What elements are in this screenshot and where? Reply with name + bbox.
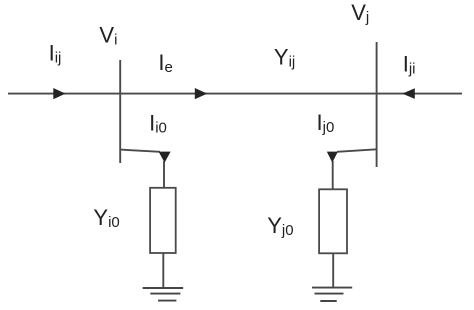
- wire: shunt tap at bus i: [120, 150, 160, 152]
- admittance Yi0 box: [150, 188, 176, 253]
- ground i: [143, 288, 184, 301]
- bus node Vj: [376, 42, 378, 167]
- svg-text:Ij0: Ij0: [317, 110, 335, 136]
- bus node Vi: [119, 60, 121, 163]
- ground j: [312, 288, 352, 301]
- arrowhead: current Iji direction: [402, 88, 415, 99]
- svg-text:Iji: Iji: [403, 52, 416, 78]
- svg-text:Yj0: Yj0: [267, 213, 293, 239]
- svg-text:Yi0: Yi0: [93, 205, 119, 231]
- svg-text:Vj: Vj: [351, 0, 369, 26]
- svg-text:Ii0: Ii0: [149, 111, 167, 137]
- wire: arrow to Yi0: [163, 161, 165, 188]
- arrowhead: shunt current Ii0 direction: [159, 152, 171, 163]
- svg-text:Yij: Yij: [274, 45, 295, 71]
- wire: shunt tap at bus j: [337, 149, 377, 152]
- svg-text:Iij: Iij: [49, 41, 62, 67]
- wire: Yj0 to ground: [332, 253, 334, 287]
- wire: arrow to Yj0: [332, 161, 334, 189]
- wire: main transmission line i to j: [8, 93, 462, 95]
- wire: Yi0 to ground: [162, 253, 164, 288]
- arrowhead: shunt current Ij0 direction: [327, 152, 338, 163]
- arrowhead: current Ie direction: [195, 88, 207, 99]
- arrowhead: current Iij direction: [53, 88, 65, 99]
- admittance Yj0 box: [319, 189, 347, 253]
- svg-text:Ie: Ie: [158, 50, 172, 76]
- svg-text:Vi: Vi: [99, 23, 117, 49]
